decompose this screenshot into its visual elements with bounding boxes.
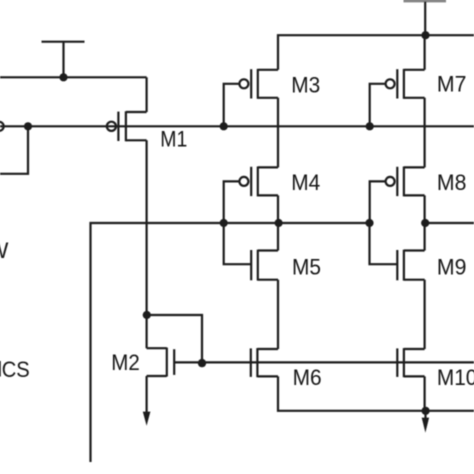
svg-text:M6: M6 (293, 365, 322, 390)
wire M7 source drop (424, 35, 426, 70)
wire M2 gate loop (147, 315, 202, 362)
transistor M10 (NMOS) (397, 348, 424, 377)
junction dot M4 gate (220, 219, 228, 227)
wire M8-M9 column (424, 195, 426, 250)
transistor M4 (PMOS) (224, 167, 278, 224)
wire M10 source down (424, 376, 426, 410)
transistor M7 (PMOS) (370, 69, 425, 126)
transistor M6 (NMOS) (251, 348, 278, 377)
node label sliver before CS (0, 361, 1, 377)
transistor M3 (PMOS) (224, 69, 278, 126)
svg-text:M3: M3 (291, 72, 320, 97)
node bias rail (gate rail of M1/M3/M7) (0, 125, 474, 127)
wire M7-M8 column (424, 98, 426, 168)
svg-text:W: W (0, 238, 9, 263)
wire M1 drain down (146, 140, 148, 348)
transistor (cropped) gate circle at left edge (0, 122, 4, 131)
transistor M1 (PMOS) (107, 111, 147, 141)
junction dot M1-M2 node (143, 311, 151, 319)
junction dot M4 drain (275, 219, 283, 227)
arrow M2 source (current sink) (143, 412, 151, 426)
junction dot M8 drain (421, 219, 429, 227)
junction dot left bias (24, 122, 32, 130)
svg-text:M10: M10 (437, 365, 474, 390)
svg-text:M1: M1 (160, 126, 187, 151)
svg-text:M8: M8 (437, 170, 467, 195)
wire M3-M4 column (277, 98, 279, 168)
junction dot top rail (421, 31, 429, 39)
junction dot M3 gate (220, 122, 228, 130)
wire M4-M5 column (277, 195, 279, 250)
transistor M8 (PMOS) (370, 167, 425, 224)
wire M5-M6 column (277, 280, 279, 349)
transistor M9 (NMOS) (370, 223, 425, 281)
wire left branch down (0, 126, 28, 174)
transistor M2 (NMOS, mirrored) (147, 348, 175, 377)
svg-text:M2: M2 (111, 350, 140, 375)
junction dot M7 gate (366, 122, 374, 130)
junction dot M8 gate (365, 219, 373, 227)
wire supply stem right (424, 2, 426, 36)
wire VDD-left rail (0, 76, 147, 78)
transistor M5 (NMOS) (224, 223, 278, 281)
svg-text:M9: M9 (437, 254, 467, 279)
wire M2 source down (146, 376, 148, 415)
wire mirror rail (M4/M8 gates) (91, 223, 370, 462)
junction dot M2 gate (198, 359, 206, 367)
svg-text:M4: M4 (291, 170, 320, 195)
wire top rail (278, 35, 474, 70)
power supply VDD left (T symbol) (42, 42, 85, 78)
svg-text:CS: CS (2, 357, 30, 382)
wire M9-M10 column (424, 280, 426, 349)
junction dot supply-left (59, 73, 67, 81)
wire tail/source rail bottom (278, 376, 474, 410)
svg-text:M5: M5 (292, 254, 321, 279)
wire M2 gate rail to M6/M10 (174, 361, 474, 363)
power supply VDD right (gray bar, cropped) (404, 0, 447, 2)
wire cascode output rail right (425, 222, 474, 224)
arrow tail current sink (422, 418, 429, 433)
wire M1 source drop (146, 77, 148, 112)
junction dot tail node (422, 407, 430, 415)
svg-text:M7: M7 (437, 72, 467, 97)
